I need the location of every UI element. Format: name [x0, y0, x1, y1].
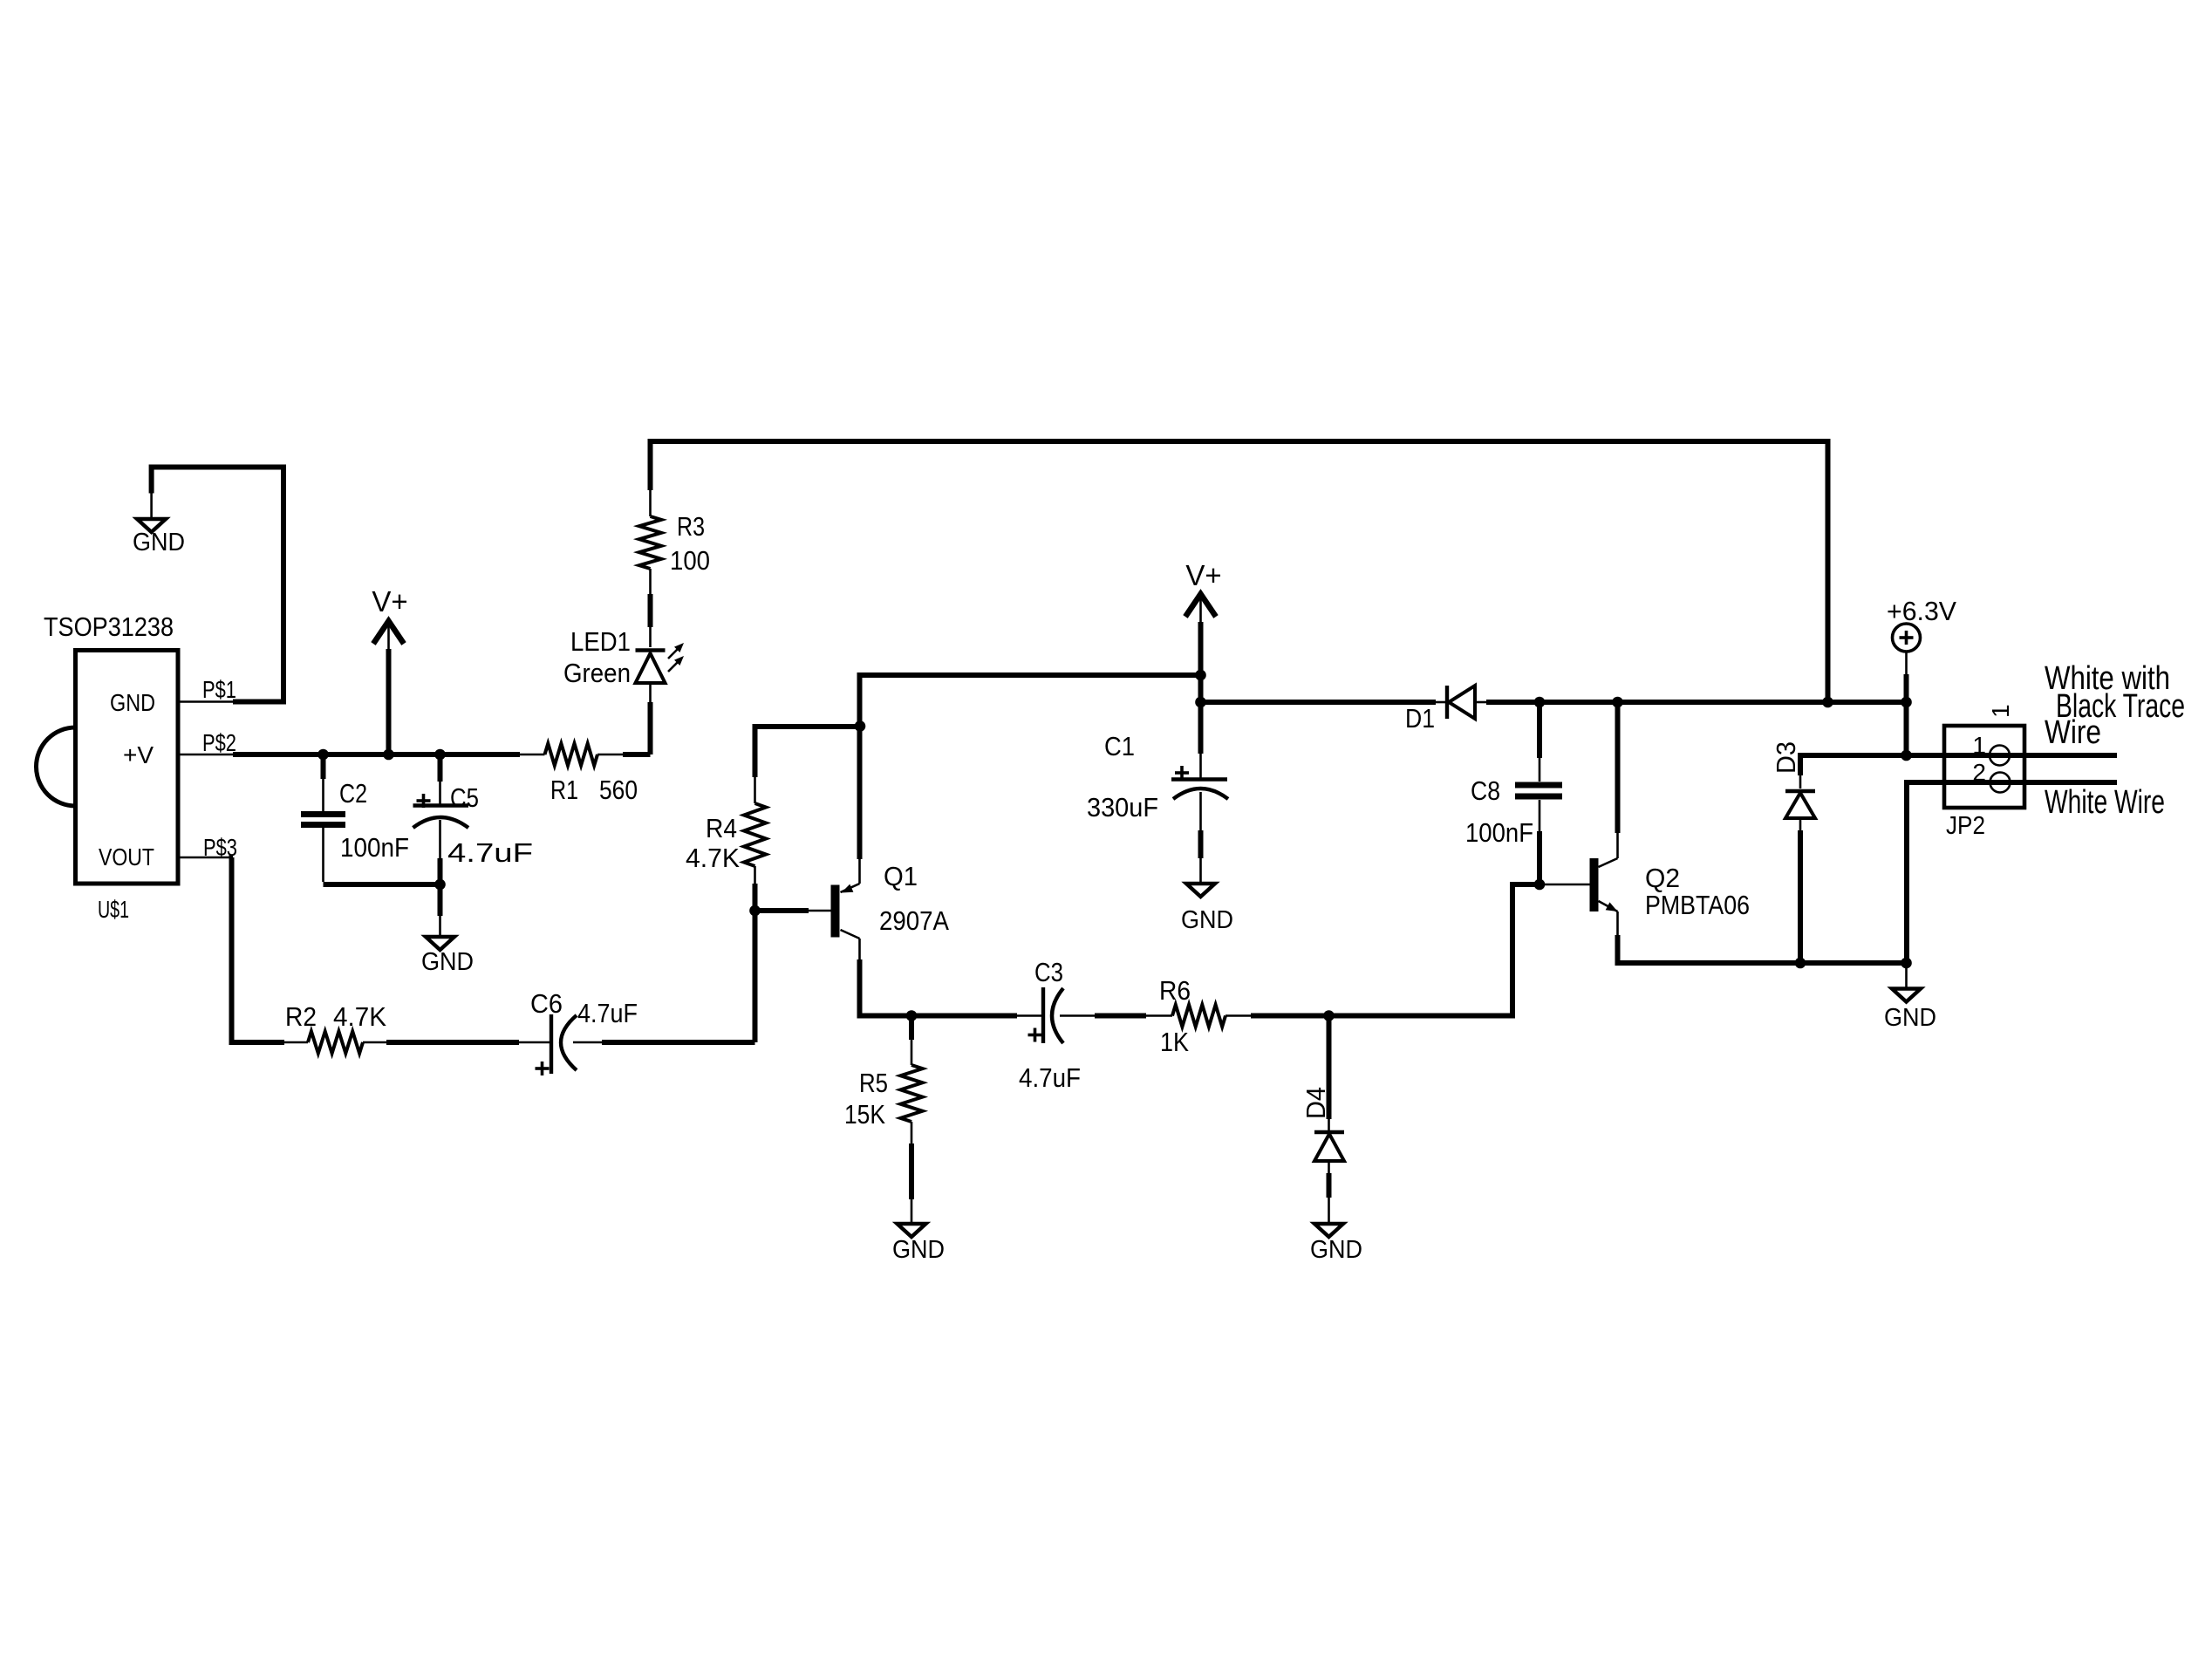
- node C2 junction: [317, 749, 329, 761]
- svg-text:GND: GND: [133, 529, 185, 556]
- node top rail junction: [1822, 697, 1833, 708]
- wire P$1 to GND: [152, 468, 283, 702]
- wire R2 to C6: [386, 1040, 519, 1045]
- node C8 top junction: [1534, 697, 1546, 708]
- node V+ junction: [383, 749, 394, 761]
- svg-text:GND: GND: [1181, 906, 1233, 934]
- wire Q1 base: [755, 908, 831, 913]
- wire C8 to Q2 base: [1540, 884, 1590, 886]
- svg-text:15K: 15K: [844, 1099, 885, 1130]
- label White with Black Trace Wire: [2045, 660, 2185, 751]
- svg-text:330uF: 330uF: [1087, 792, 1158, 823]
- svg-text:GND: GND: [1884, 1004, 1936, 1032]
- svg-text:560: 560: [599, 775, 638, 805]
- svg-text:C1: C1: [1104, 731, 1135, 761]
- wire Q1 collector down: [860, 959, 1018, 1016]
- pin GND of U$1: [110, 676, 236, 716]
- capacitor C8 100nF: [1465, 702, 1562, 884]
- svg-text:Q2: Q2: [1645, 863, 1680, 893]
- power V+ (C1): [1185, 559, 1222, 754]
- node R4/base junction: [749, 905, 761, 917]
- wire R6 to Q2 base: [1251, 884, 1540, 1016]
- connector JP2: [1944, 704, 2024, 840]
- wire Q2 collector up: [1615, 702, 1621, 833]
- resistor R3 100: [639, 490, 710, 627]
- svg-text:Green: Green: [563, 658, 631, 688]
- svg-text:R1: R1: [550, 775, 578, 805]
- svg-text:White Wire: White Wire: [2045, 784, 2165, 821]
- svg-text:GND: GND: [110, 689, 155, 716]
- ground GND (under R5): [892, 1224, 945, 1264]
- wire Q1 emitter to V+ rail: [860, 675, 1202, 859]
- diode D4: [1301, 1016, 1344, 1223]
- node V+ / emitter rail junction: [1195, 670, 1206, 681]
- svg-text:D1: D1: [1405, 703, 1435, 734]
- svg-text:2: 2: [1972, 759, 1986, 786]
- wire P$3 down and across: [232, 857, 285, 1042]
- ground GND (emitter rail): [1884, 963, 1936, 1032]
- svg-text:R4: R4: [706, 813, 737, 843]
- wire P$2 rail: [233, 752, 520, 757]
- ground GND (under C1): [1181, 884, 1233, 934]
- resistor R1 560: [520, 743, 651, 805]
- svg-text:R6: R6: [1159, 975, 1191, 1006]
- svg-text:4.7K: 4.7K: [686, 843, 740, 873]
- svg-text:C3: C3: [1034, 957, 1063, 987]
- transistor Q1 2907A (PNP): [831, 859, 950, 959]
- svg-text:R5: R5: [859, 1068, 888, 1098]
- svg-text:C2: C2: [339, 778, 367, 809]
- node +6.3V junction: [1901, 697, 1912, 708]
- ground GND (top left): [133, 494, 185, 557]
- svg-text:4.7uF: 4.7uF: [447, 837, 533, 868]
- wire top rail: [651, 441, 1828, 702]
- svg-text:GND: GND: [421, 948, 474, 976]
- svg-text:100nF: 100nF: [340, 832, 409, 863]
- wire D1 to +6.3V node: [1486, 700, 1907, 705]
- node C5 bottom junction: [434, 879, 446, 891]
- resistor R6 1K: [1095, 975, 1251, 1057]
- wire C6 to R4/base: [602, 1040, 755, 1045]
- svg-text:D4: D4: [1301, 1087, 1331, 1119]
- svg-text:JP2: JP2: [1946, 812, 1985, 840]
- capacitor C6 4.7uF (polarized): [519, 988, 638, 1075]
- svg-text:4.7uF: 4.7uF: [1019, 1062, 1081, 1093]
- wire D3 top: [1800, 755, 1907, 775]
- svg-text:C6: C6: [530, 988, 563, 1019]
- node D3 bottom junction: [1795, 958, 1806, 969]
- ground GND (under C5): [421, 916, 474, 976]
- svg-text:R2: R2: [285, 1001, 317, 1032]
- svg-text:1: 1: [1987, 704, 2014, 718]
- wire JP2 pin 2: [1907, 782, 2117, 963]
- svg-text:P$1: P$1: [202, 676, 236, 703]
- wire Q2 emitter rail: [1618, 935, 1907, 963]
- resistor R2 4.7K: [284, 1001, 386, 1054]
- svg-text:100: 100: [670, 545, 710, 576]
- svg-text:1K: 1K: [1160, 1027, 1189, 1057]
- svg-text:LED1: LED1: [570, 626, 631, 657]
- svg-text:4.7uF: 4.7uF: [577, 998, 638, 1028]
- diode D1: [1405, 686, 1486, 734]
- capacitor C5 4.7uF (polarized): [413, 754, 534, 916]
- node Q2 collector junction: [1612, 697, 1623, 708]
- svg-text:V+: V+: [372, 585, 407, 618]
- svg-text:C8: C8: [1471, 775, 1500, 806]
- svg-text:4.7K: 4.7K: [333, 1001, 386, 1032]
- svg-text:PMBTA06: PMBTA06: [1645, 890, 1750, 920]
- capacitor C3 4.7uF (polarized): [1017, 957, 1095, 1093]
- svg-text:2907A: 2907A: [879, 905, 949, 936]
- svg-text:R3: R3: [677, 511, 705, 542]
- svg-text:+V: +V: [123, 741, 154, 768]
- LED LED1 Green: [563, 626, 684, 754]
- node emitter/R4 junction: [855, 720, 866, 732]
- svg-text:Wire: Wire: [2045, 714, 2101, 751]
- svg-text:P$2: P$2: [202, 729, 236, 756]
- pin VOUT of U$1: [99, 834, 237, 870]
- power +6.3V: [1887, 596, 1956, 755]
- svg-text:U$1: U$1: [98, 896, 129, 923]
- resistor R5 15K: [844, 1016, 923, 1223]
- svg-text:Q1: Q1: [884, 861, 918, 891]
- node R5 junction: [906, 1010, 918, 1021]
- svg-text:GND: GND: [1310, 1236, 1362, 1264]
- resistor R4 4.7K: [686, 727, 860, 1042]
- transistor Q2 PMBTA06 (NPN): [1590, 833, 1751, 935]
- node Q2 base/C8 junction: [1534, 879, 1546, 891]
- capacitor C1 330uF (polarized): [1087, 731, 1228, 882]
- wire JP2 pin 1: [1907, 753, 2118, 758]
- wire C2/C5 bottom: [324, 882, 440, 887]
- wire V+ node to D1: [1201, 700, 1436, 705]
- node C5 junction: [434, 749, 446, 761]
- svg-text:1: 1: [1972, 732, 1986, 759]
- svg-text:GND: GND: [892, 1236, 945, 1264]
- diode D3: [1771, 741, 1815, 963]
- pin +V of U$1: [123, 729, 236, 768]
- svg-text:V+: V+: [1185, 559, 1221, 591]
- node GND junction (emitter rail): [1901, 958, 1912, 969]
- svg-text:D3: D3: [1771, 741, 1801, 774]
- svg-text:+6.3V: +6.3V: [1887, 596, 1956, 626]
- svg-text:C5: C5: [450, 782, 479, 813]
- ground GND (under D4): [1310, 1224, 1362, 1264]
- svg-text:100nF: 100nF: [1465, 817, 1533, 848]
- node JP2 pin1 junction: [1901, 750, 1912, 761]
- capacitor C2 100nF: [301, 754, 409, 882]
- node V+ / output rail junction: [1195, 697, 1206, 708]
- svg-text:VOUT: VOUT: [99, 843, 154, 870]
- svg-text:TSOP31238: TSOP31238: [44, 611, 174, 642]
- power V+ (left): [372, 585, 407, 754]
- node D4 junction: [1323, 1010, 1335, 1021]
- IC U$1 TSOP31238 body: [37, 611, 179, 923]
